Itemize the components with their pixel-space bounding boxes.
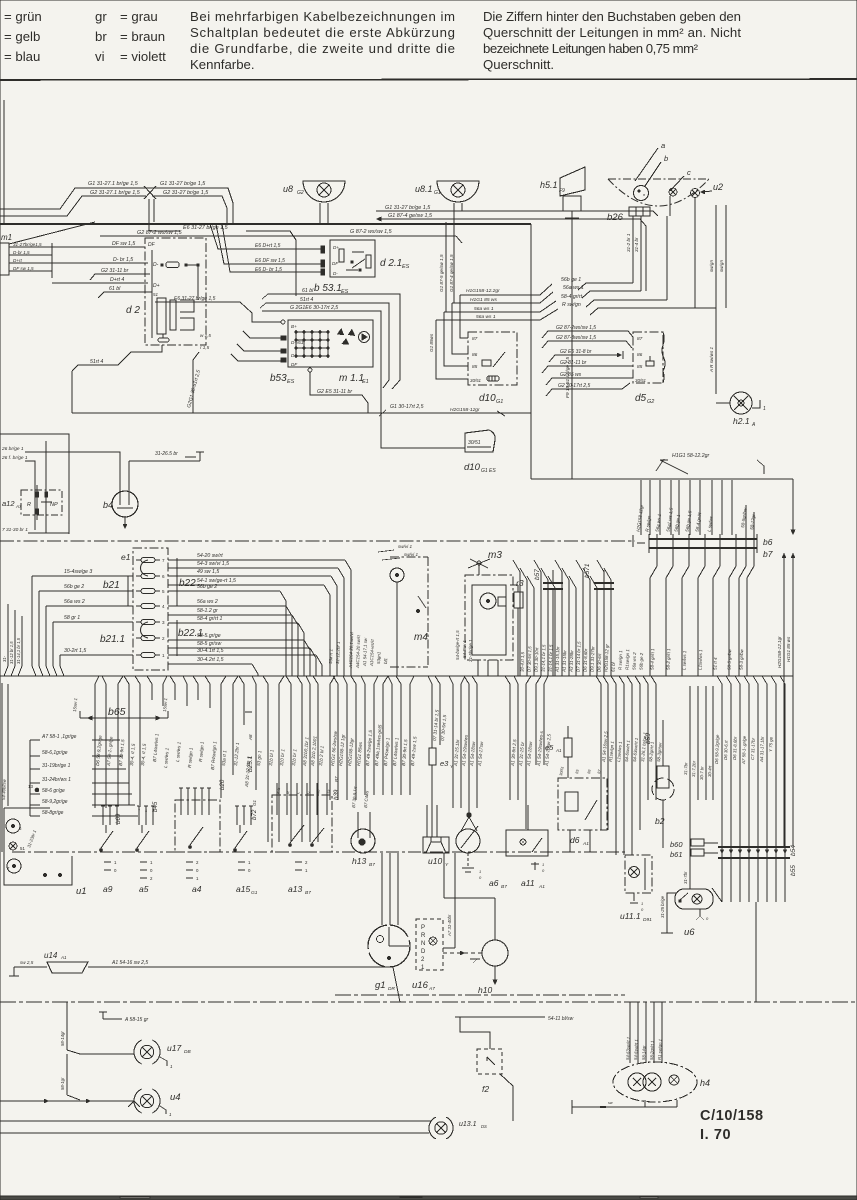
svg-text:A1 31-15,1br: A1 31-15,1br bbox=[554, 646, 560, 673]
svg-text:C/10/158: C/10/158 bbox=[700, 1108, 764, 1124]
wire G2G1 30-51rt riser bbox=[193, 352, 199, 413]
svg-text:Bei mehrfarbigen Kabelbezeic: Bei mehrfarbigen Kabelbezeichnungen im bbox=[190, 9, 455, 24]
svg-text:26 f. br/ge 1: 26 f. br/ge 1 bbox=[1, 455, 28, 461]
wire E6 DF sw bbox=[216, 224, 321, 264]
wire G2 85 ws bbox=[546, 378, 633, 385]
svg-text:b 53.1: b 53.1 bbox=[314, 283, 342, 294]
wire a11 to u16 bbox=[454, 853, 456, 948]
svg-text:56a ws 1: 56a ws 1 bbox=[476, 314, 496, 320]
lamp u11.1 bbox=[625, 855, 652, 893]
svg-text:A R sw/ws 1: A R sw/ws 1 bbox=[709, 346, 714, 373]
svg-text:A1: A1 bbox=[555, 748, 562, 753]
svg-text:G2 31-27 br/ge 1,5: G2 31-27 br/ge 1,5 bbox=[163, 190, 209, 196]
svg-text:m3: m3 bbox=[488, 550, 502, 561]
wire DF sw to d2 bbox=[52, 246, 145, 248]
svg-text:sw: sw bbox=[608, 1101, 613, 1105]
svg-text:31-5br/ge 1: 31-5br/ge 1 bbox=[468, 639, 473, 662]
svg-text:31-7br: 31-7br bbox=[683, 762, 688, 775]
svg-text:A7 58-1 ,1gr/ge: A7 58-1 ,1gr/ge bbox=[41, 734, 77, 740]
svg-text:G1 31-27 br/ge 1,5: G1 31-27 br/ge 1,5 bbox=[160, 181, 206, 187]
svg-text:A7: A7 bbox=[428, 986, 435, 992]
svg-text:G1 85ws: G1 85ws bbox=[429, 333, 434, 352]
svg-text:51rt 4: 51rt 4 bbox=[90, 359, 103, 365]
svg-text:G2 85 ws: G2 85 ws bbox=[560, 372, 582, 378]
svg-text:31-12 br 1,5: 31-12 br 1,5 bbox=[9, 641, 14, 664]
svg-text:h13: h13 bbox=[352, 856, 366, 866]
svg-text:30-7 br: 30-7 br bbox=[699, 766, 704, 780]
svg-text:58-5 gr/sw: 58-5 gr/sw bbox=[197, 641, 222, 647]
leader left hook bbox=[656, 459, 664, 471]
wire b26 drop 31-4 bbox=[640, 216, 642, 291]
svg-text:54-20 sw/rt: 54-20 sw/rt bbox=[197, 553, 223, 559]
wire E6 D+rt bbox=[210, 224, 321, 249]
svg-text:b55: b55 bbox=[790, 865, 797, 876]
horn h5.1 bbox=[560, 167, 585, 196]
wire 56a ws 1 upper bbox=[444, 301, 556, 312]
svg-text:a: a bbox=[661, 141, 665, 150]
svg-text:H1G1 85 ws: H1G1 85 ws bbox=[786, 636, 791, 662]
svg-text:sw/gn: sw/gn bbox=[719, 260, 724, 272]
svg-text:b7: b7 bbox=[763, 549, 773, 559]
wire box around a12 bbox=[0, 434, 69, 534]
wire comb to fuse strip bbox=[717, 676, 722, 902]
svg-text:G1 ES: G1 ES bbox=[481, 468, 496, 474]
svg-text:u4: u4 bbox=[170, 1092, 181, 1103]
svg-text:58-4 gr/rt 1: 58-4 gr/rt 1 bbox=[197, 616, 222, 622]
wire boundary lower horizontal bbox=[531, 478, 793, 480]
svg-text:E6 31-27 br/ge 1,5: E6 31-27 br/ge 1,5 bbox=[174, 296, 216, 302]
svg-text:d10: d10 bbox=[479, 393, 496, 404]
svg-text:54-63sw/rt 1: 54-63sw/rt 1 bbox=[625, 1037, 631, 1060]
svg-text:bezeichnete Leitungen haben: bezeichnete Leitungen haben 0,75 mm² bbox=[483, 41, 699, 56]
wire 26f br/ge bbox=[25, 461, 35, 530]
wire 51rt 4 into d2 bbox=[125, 345, 162, 358]
svg-text:58-5.gr/ge: 58-5.gr/ge bbox=[197, 633, 221, 639]
svg-text:DF: DF bbox=[148, 242, 156, 248]
svg-text:31-25 br/ge: 31-25 br/ge bbox=[660, 895, 665, 918]
wire b53 left DF bbox=[231, 354, 281, 361]
wire left edge vertical bbox=[3, 100, 5, 224]
relay d5 box bbox=[633, 332, 663, 383]
pilot lamp R in b26 bbox=[634, 186, 649, 201]
svg-text:G2 87-2 ws/sw 1,5: G2 87-2 ws/sw 1,5 bbox=[137, 230, 183, 236]
wire sw/gn pair bbox=[715, 205, 717, 394]
relay d10 box bbox=[468, 332, 517, 385]
svg-text:f2: f2 bbox=[482, 1084, 489, 1094]
svg-text:P: P bbox=[421, 925, 425, 931]
svg-text:58-2gr/rt 1: 58-2gr/rt 1 bbox=[649, 1041, 655, 1060]
wire b26 drop R bbox=[694, 197, 696, 308]
fuse strip b55 b54 bbox=[718, 846, 790, 848]
flasher lamp u8 bbox=[303, 181, 345, 202]
svg-text:G1 87-5 ge/sw 1,5: G1 87-5 ge/sw 1,5 bbox=[439, 254, 444, 292]
svg-text:56b ge 2: 56b ge 2 bbox=[197, 584, 217, 590]
svg-text:58-1gr: 58-1gr bbox=[60, 1077, 65, 1090]
svg-text:7 31-30 br 1: 7 31-30 br 1 bbox=[2, 527, 28, 533]
svg-text:56a ws 2: 56a ws 2 bbox=[632, 652, 638, 670]
svg-text:30/51: 30/51 bbox=[635, 378, 647, 383]
svg-text:Querschnitt.: Querschnitt. bbox=[483, 57, 554, 72]
svg-text:58-1.2 gr: 58-1.2 gr bbox=[197, 608, 218, 614]
svg-text:A7: A7 bbox=[15, 504, 22, 509]
svg-text:A1 54-17,1 sw: A1 54-17,1 sw bbox=[362, 637, 368, 667]
svg-text:u16: u16 bbox=[412, 980, 429, 991]
wires right of b22 into loom bbox=[168, 559, 345, 561]
svg-text:A1C154-ws/rt: A1C154-ws/rt bbox=[369, 639, 375, 668]
wire d10 30-51 feed bbox=[436, 320, 468, 379]
wire H2G1 58-12.1gr long bbox=[783, 553, 785, 846]
svg-text:bl1: bl1 bbox=[383, 657, 388, 664]
svg-text:H2G158-12gr: H2G158-12gr bbox=[450, 407, 480, 413]
svg-text:53a rt 1: 53a rt 1 bbox=[328, 648, 334, 664]
svg-text:G1 87-4 ge/sw 1,5: G1 87-4 ge/sw 1,5 bbox=[449, 254, 454, 292]
wire boundary drop with arrow bbox=[792, 479, 794, 530]
svg-text:E1: E1 bbox=[362, 379, 369, 385]
svg-text:58-8gr/ge: 58-8gr/ge bbox=[42, 810, 64, 816]
alternator motor circle bbox=[359, 332, 370, 343]
svg-text:1: 1 bbox=[162, 653, 165, 658]
svg-text:56b ge 1: 56b ge 1 bbox=[561, 277, 581, 283]
svg-text:b65: b65 bbox=[108, 706, 126, 718]
lamp h10 bbox=[482, 940, 508, 966]
body line 31 bus bbox=[0, 1001, 857, 1003]
svg-text:54-40bl/sw: 54-40bl/sw bbox=[1, 778, 7, 800]
svg-text:= blau: = blau bbox=[4, 49, 40, 64]
svg-text:3: 3 bbox=[162, 620, 165, 625]
svg-text:61 bl: 61 bl bbox=[611, 661, 616, 672]
svg-text:a12: a12 bbox=[2, 499, 15, 508]
svg-text:= grün: = grün bbox=[4, 9, 42, 24]
svg-text:D-br 1,5: D-br 1,5 bbox=[13, 250, 30, 255]
svg-text:u8: u8 bbox=[283, 184, 293, 194]
svg-text:54-6sw/rt 1: 54-6sw/rt 1 bbox=[633, 1039, 639, 1060]
wire drops to b6 strip bbox=[640, 480, 642, 535]
svg-text:2: 2 bbox=[152, 809, 154, 813]
svg-text:D9,1 31-27br: D9,1 31-27br bbox=[590, 646, 596, 672]
svg-text:G1 31-27.1 br/ge 1,5: G1 31-27.1 br/ge 1,5 bbox=[88, 181, 139, 187]
svg-text:b6: b6 bbox=[763, 537, 773, 547]
svg-text:26 br/ge 1: 26 br/ge 1 bbox=[1, 446, 24, 452]
svg-text:D7 30-5rt 1,5: D7 30-5rt 1,5 bbox=[527, 646, 533, 672]
wire G2 87-2 ws/sw with labels bbox=[100, 235, 456, 237]
wire G2 31-11 br bbox=[90, 274, 150, 280]
svg-text:R: R bbox=[421, 933, 426, 939]
body line firewall bbox=[0, 540, 635, 542]
wire H1G1 85 ws long bbox=[792, 553, 794, 846]
wire E6 D-br bbox=[222, 224, 321, 272]
wire main top bus 30 bbox=[0, 223, 531, 225]
svg-text:b20: b20 bbox=[219, 779, 226, 790]
svg-text:gr: gr bbox=[95, 9, 107, 24]
leader c bbox=[670, 176, 684, 191]
svg-text:b: b bbox=[664, 154, 668, 163]
wire R sw/gn bbox=[590, 308, 716, 315]
pilot lamp in b26 right bbox=[691, 189, 700, 198]
svg-text:A1 54-16 sw 2,5: A1 54-16 sw 2,5 bbox=[111, 960, 148, 966]
wire loom collector line bbox=[0, 675, 793, 677]
svg-text:5: 5 bbox=[162, 589, 165, 594]
svg-text:vi: vi bbox=[95, 49, 105, 64]
svg-text:4: 4 bbox=[162, 604, 165, 609]
svg-text:A1 31-15br: A1 31-15br bbox=[561, 650, 567, 673]
svg-text:D9,1 30-10rt: D9,1 30-10rt bbox=[534, 647, 540, 672]
wire bottom rule lower bbox=[0, 1132, 429, 1134]
svg-text:D+rt 4: D+rt 4 bbox=[110, 277, 124, 283]
wire u8 drops bbox=[319, 203, 321, 224]
svg-text:G 2G1E6 30-17rt 2,5: G 2G1E6 30-17rt 2,5 bbox=[290, 305, 338, 311]
svg-text:31-7,2br: 31-7,2br bbox=[691, 760, 697, 777]
svg-text:49 sw 1,5: 49 sw 1,5 bbox=[197, 569, 219, 575]
svg-text:86: 86 bbox=[637, 352, 643, 358]
transmission switch g1 bbox=[368, 925, 410, 967]
svg-text:u10: u10 bbox=[428, 856, 442, 866]
svg-text:G1 87-4 ge/sw 1,5: G1 87-4 ge/sw 1,5 bbox=[388, 213, 433, 219]
svg-text:G2: G2 bbox=[647, 399, 654, 405]
svg-text:m1: m1 bbox=[1, 233, 12, 242]
svg-text:G2: G2 bbox=[297, 190, 304, 196]
svg-text:a15: a15 bbox=[236, 884, 250, 894]
svg-text:58-2 gr/rt 1: 58-2 gr/rt 1 bbox=[666, 648, 672, 670]
svg-text:u17: u17 bbox=[167, 1043, 181, 1053]
svg-text:g1: g1 bbox=[375, 980, 386, 991]
svg-text:54-3 sw/vi 1,5: 54-3 sw/vi 1,5 bbox=[197, 561, 229, 567]
wire branch 58-1gr bbox=[66, 1054, 68, 1095]
svg-text:D91: D91 bbox=[643, 917, 652, 923]
svg-text:br: br bbox=[95, 29, 107, 44]
wire D+rt 4 bbox=[52, 282, 148, 284]
wires into h4 bbox=[629, 1002, 631, 1063]
svg-text:u6: u6 bbox=[684, 927, 695, 938]
header rule bbox=[0, 79, 857, 80]
svg-text:d 2.1: d 2.1 bbox=[380, 258, 402, 269]
svg-text:31-14,1 br 1,5: 31-14,1 br 1,5 bbox=[541, 644, 547, 672]
switch a11 bbox=[506, 830, 548, 856]
svg-text:61 bl: 61 bl bbox=[302, 288, 314, 294]
svg-text:58-14gr: 58-14gr bbox=[60, 1031, 65, 1046]
ignition coil b4 bbox=[112, 491, 138, 517]
ignition starter switch u1 bbox=[4, 808, 72, 885]
switch u6 bbox=[675, 889, 713, 909]
leader b bbox=[645, 162, 661, 186]
svg-text:b69: b69 bbox=[115, 813, 122, 824]
wire branch 58-14gr bbox=[66, 1002, 68, 1050]
svg-text:u2: u2 bbox=[713, 182, 723, 192]
svg-text:A: A bbox=[751, 422, 756, 428]
switch a13 housing b39 bbox=[272, 795, 332, 852]
svg-text:h4: h4 bbox=[700, 1078, 710, 1088]
wire G1 31-27 to b26 bbox=[376, 211, 658, 216]
wire b53 left B+ bbox=[155, 302, 281, 322]
svg-text:D+: D+ bbox=[333, 245, 339, 250]
svg-text:Schaltplan bedeutet die ers: Schaltplan bedeutet die erste Abkürzung bbox=[190, 25, 455, 40]
svg-text:DF sw 1,5: DF sw 1,5 bbox=[13, 266, 34, 271]
svg-text:= braun: = braun bbox=[120, 29, 165, 44]
svg-text:58-4 gr/rt 1: 58-4 gr/rt 1 bbox=[650, 648, 656, 670]
svg-text:H1G158-12.2gr: H1G158-12.2gr bbox=[466, 288, 500, 294]
svg-text:Y 75 ge: Y 75 ge bbox=[768, 736, 774, 752]
loom verticals mid right bbox=[513, 560, 520, 676]
svg-text:58-6 gr/ge: 58-6 gr/ge bbox=[42, 788, 65, 794]
connector strip b6 b7 bars bbox=[649, 538, 757, 540]
horn h2.1 bbox=[730, 392, 752, 414]
svg-text:b4: b4 bbox=[103, 500, 113, 510]
flasher lamp u8.1 bbox=[437, 181, 479, 202]
svg-text:31-7br: 31-7br bbox=[683, 871, 688, 884]
svg-text:30/51: 30/51 bbox=[468, 440, 481, 446]
svg-text:87: 87 bbox=[637, 336, 643, 342]
svg-text:B7: B7 bbox=[369, 862, 375, 868]
svg-text:56a ws 1: 56a ws 1 bbox=[474, 306, 494, 312]
svg-text:G1: G1 bbox=[252, 799, 257, 806]
junction X crossover bbox=[144, 186, 156, 199]
svg-text:NP: NP bbox=[50, 502, 58, 508]
wire 51rt 4 long bbox=[266, 303, 389, 388]
svg-text:B7: B7 bbox=[334, 776, 339, 782]
svg-text:1: 1 bbox=[479, 869, 481, 874]
svg-text:a5: a5 bbox=[139, 884, 149, 894]
svg-text:m 1.1: m 1.1 bbox=[339, 373, 364, 384]
wire u16 to h10 dashed bbox=[443, 952, 482, 954]
switch a6 bbox=[456, 829, 480, 853]
wire d10 85 feed bbox=[444, 312, 468, 366]
svg-text:D6 30-6rt: D6 30-6rt bbox=[597, 653, 603, 672]
svg-text:m4: m4 bbox=[414, 632, 428, 643]
generator m1 bbox=[0, 243, 9, 275]
left edge wires lower bbox=[1, 683, 3, 852]
wire d10 87 feed bbox=[460, 295, 468, 338]
svg-text:b21.1: b21.1 bbox=[100, 634, 125, 645]
svg-text:30-4.2rt 1,5: 30-4.2rt 1,5 bbox=[197, 657, 224, 663]
wire G2 30-17rt bbox=[546, 383, 630, 396]
wire b26 drop 58-4 bbox=[666, 216, 668, 300]
wire u6 ground bbox=[667, 893, 677, 925]
svg-text:b22: b22 bbox=[179, 578, 196, 589]
headlamp unit h4 bbox=[613, 1062, 697, 1102]
svg-text:31-12,2br 1: 31-12,2br 1 bbox=[335, 641, 341, 664]
connector strip ticks bbox=[656, 534, 658, 553]
svg-text:D+/61: D+/61 bbox=[291, 340, 304, 345]
wire G1 31-27 right segment bbox=[150, 188, 233, 224]
svg-text:1: 1 bbox=[763, 406, 766, 412]
svg-text:w 1,5: w 1,5 bbox=[200, 333, 211, 338]
flasher relay h13 bbox=[351, 829, 375, 853]
wire d10 86 feed bbox=[452, 303, 468, 354]
wire 61 bl long bbox=[268, 294, 400, 389]
svg-text:30-4,rt 1,5: 30-4,rt 1,5 bbox=[520, 651, 526, 672]
svg-text:A 58-15 gr: A 58-15 gr bbox=[124, 1017, 148, 1023]
wire m3 drops bbox=[477, 660, 479, 676]
wire drop from X bbox=[148, 199, 150, 231]
svg-text:31-27br/ge1,5: 31-27br/ge1,5 bbox=[13, 242, 42, 247]
connector housing b21 b22 bbox=[133, 548, 168, 670]
svg-text:D6 58-9,2gr/ge: D6 58-9,2gr/ge bbox=[714, 734, 720, 764]
svg-text:G1 31-27 br/ge 1,5: G1 31-27 br/ge 1,5 bbox=[385, 205, 431, 211]
svg-text:a4: a4 bbox=[192, 884, 202, 894]
svg-text:58-5 gr/bw: 58-5 gr/bw bbox=[727, 648, 733, 670]
svg-text:b59: b59 bbox=[645, 733, 652, 744]
svg-text:r 1,5: r 1,5 bbox=[200, 345, 210, 350]
svg-text:a6: a6 bbox=[489, 878, 499, 888]
wire G1 87-5 vertical bbox=[445, 222, 447, 312]
svg-text:H2G158-12,1gr: H2G158-12,1gr bbox=[777, 636, 782, 668]
svg-text:Die Ziffern hinter den Buchsta: Die Ziffern hinter den Buchstaben geben … bbox=[483, 9, 741, 24]
svg-text:I. 70: I. 70 bbox=[700, 1127, 731, 1143]
svg-text:54-11 bl/sw: 54-11 bl/sw bbox=[548, 1016, 574, 1022]
switch a9 bbox=[102, 806, 104, 825]
svg-text:A7 58-1-,gr/ge: A7 58-1-,gr/ge bbox=[741, 735, 747, 765]
wire G2G1E6 30-17rt bbox=[262, 311, 465, 448]
connector d10 G1 ES bbox=[465, 430, 495, 452]
wire 26 br/ge bbox=[25, 452, 120, 489]
wires 31-7 group bbox=[689, 686, 691, 889]
wire G1 87-4 to b26 bbox=[377, 217, 381, 221]
svg-text:86: 86 bbox=[472, 352, 478, 358]
svg-text:b53: b53 bbox=[270, 373, 287, 384]
svg-text:G2 30-17rt 2,5: G2 30-17rt 2,5 bbox=[558, 383, 590, 389]
switch a4 contacts bbox=[180, 788, 182, 800]
wire G2 31-27.1 left segment bbox=[0, 196, 146, 216]
svg-text:54-bw/ge-rt 1,5: 54-bw/ge-rt 1,5 bbox=[455, 630, 460, 660]
svg-text:D- br 1,5: D- br 1,5 bbox=[113, 257, 133, 263]
lamp u13.1 bbox=[429, 1117, 453, 1139]
svg-text:G2 E6 31-8 br: G2 E6 31-8 br bbox=[560, 349, 592, 355]
lamp u4 bbox=[134, 1089, 160, 1113]
svg-text:D-: D- bbox=[153, 262, 159, 268]
wire G2 87-2 bbox=[542, 331, 633, 338]
wire 56b ge 1 bbox=[578, 283, 633, 290]
body line 31 second bbox=[335, 994, 625, 996]
selector indicator u16 bbox=[416, 919, 443, 970]
fuse e5 bbox=[564, 738, 572, 757]
svg-text:die Grundfarbe, die zweite: die Grundfarbe, die zweite und dritte di… bbox=[190, 41, 455, 56]
svg-text:d5: d5 bbox=[635, 393, 647, 404]
svg-text:R1sw/gn 1: R1sw/gn 1 bbox=[625, 649, 631, 670]
svg-text:ES: ES bbox=[402, 264, 410, 270]
svg-text:D6 31-8,6br: D6 31-8,6br bbox=[732, 736, 738, 760]
svg-text:30-4rt: 30-4rt bbox=[707, 765, 712, 777]
svg-text:31-4 br: 31-4 br bbox=[634, 237, 639, 252]
svg-text:31-14,1 br 1,5: 31-14,1 br 1,5 bbox=[548, 644, 554, 672]
wire 58-4 gr/rt bbox=[586, 300, 667, 307]
svg-text:b21: b21 bbox=[103, 580, 120, 591]
svg-text:a9: a9 bbox=[103, 884, 113, 894]
regulator d2 box bbox=[145, 238, 206, 345]
alternator b53 box bbox=[288, 320, 373, 367]
svg-text:51: 51 bbox=[153, 292, 159, 297]
svg-text:Kennfarbe.: Kennfarbe. bbox=[190, 57, 255, 72]
alternator b53 diode dots bbox=[295, 331, 297, 333]
wire G2 31-27 right segment bbox=[152, 196, 227, 224]
svg-text:31-24br/ws 1: 31-24br/ws 1 bbox=[42, 777, 71, 783]
svg-text:31-19br/ge 1: 31-19br/ge 1 bbox=[42, 763, 71, 769]
svg-text:e3: e3 bbox=[440, 759, 449, 768]
svg-text:6: 6 bbox=[162, 574, 165, 579]
wire G2 87-3 bbox=[542, 341, 632, 348]
relay d10 contacts bbox=[482, 360, 491, 366]
wire H1G1 85 ws bbox=[452, 292, 553, 303]
svg-text:= grau: = grau bbox=[120, 9, 158, 24]
svg-text:G1: G1 bbox=[496, 399, 503, 405]
svg-text:58-4 gr/rt: 58-4 gr/rt bbox=[561, 294, 583, 300]
connector pins 1-7 bbox=[141, 558, 155, 563]
svg-text:L1sw/ws 1: L1sw/ws 1 bbox=[698, 649, 704, 670]
fuse f2 bbox=[477, 1049, 502, 1074]
svg-text:R1 sw/gn 1: R1 sw/gn 1 bbox=[657, 1039, 663, 1060]
wire b53 left D- bbox=[237, 344, 281, 351]
svg-text:u8.1: u8.1 bbox=[415, 184, 433, 194]
svg-text:2: 2 bbox=[162, 636, 165, 641]
svg-text:58-14gr: 58-14gr bbox=[641, 1045, 647, 1060]
